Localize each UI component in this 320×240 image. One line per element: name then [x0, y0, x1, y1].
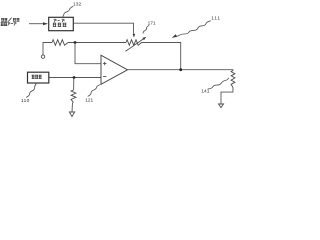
terminal circle (top-left input) — [41, 55, 44, 58]
ground (right, open triangle) — [219, 104, 224, 108]
svg-text:121: 121 — [85, 97, 93, 103]
data converter text データ — [54, 19, 65, 22]
arrow into data converter — [29, 22, 48, 25]
data converter box U132 — [49, 17, 74, 30]
leader for 121 — [88, 85, 101, 97]
wire resistor 141 to ground — [221, 88, 233, 105]
leader for 110 — [26, 83, 36, 97]
wire resistor to ground — [71, 103, 74, 113]
op-amp - mark — [103, 75, 106, 77]
leader for 171 — [143, 25, 149, 33]
resistor R141 — [231, 71, 235, 88]
wire top rail right segment and down to output node — [142, 43, 181, 70]
wire down to resistor — [73, 78, 75, 91]
svg-text:141: 141 — [201, 88, 209, 94]
node: lower junction — [73, 76, 76, 79]
potentiometer R171 body — [126, 40, 142, 46]
wire feedback down to op-amp + input — [75, 43, 101, 64]
oscillator box 110 — [28, 72, 49, 83]
wire into resistor 141 — [232, 69, 234, 72]
control wire from converter to pot — [74, 23, 134, 34]
data converter text 変換部 — [53, 23, 67, 27]
node: output junction — [179, 68, 182, 71]
svg-text:111: 111 — [211, 16, 221, 22]
potentiometer arrow — [126, 37, 147, 52]
input data label line2 数値データ — [1, 22, 17, 25]
ground (left, open triangle) — [69, 112, 74, 117]
op-amp U121 — [101, 55, 128, 84]
arrowhead of 111 leader — [172, 34, 178, 38]
wire op-amp output — [128, 69, 234, 71]
wire from terminal up to top rail — [43, 43, 52, 55]
svg-text:110: 110 — [21, 98, 30, 104]
input data label line1 演算/設定 — [1, 18, 19, 22]
wire resistor to top node — [68, 42, 126, 44]
leader for 111 — [177, 21, 211, 36]
svg-text:132: 132 — [73, 2, 82, 8]
leader for 132 — [63, 6, 74, 17]
resistor to ground (left) — [71, 90, 76, 103]
feedback resistor — [52, 40, 68, 46]
wire oscillator to op-amp - input — [49, 77, 101, 79]
node: top junction — [74, 41, 77, 44]
control arrowhead onto pot — [133, 34, 136, 38]
leader for 141 — [208, 78, 229, 89]
oscillator text 発振器 — [32, 75, 42, 79]
op-amp + mark — [103, 62, 106, 65]
